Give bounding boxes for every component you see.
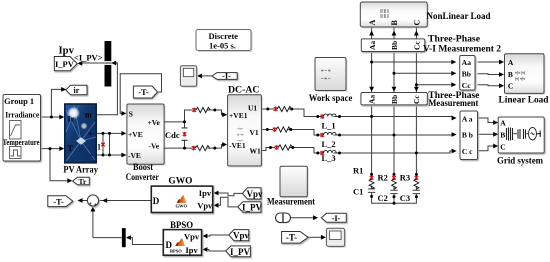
svg-text:ir: ir — [74, 86, 80, 95]
svg-text:Ipv: Ipv — [199, 188, 212, 198]
svg-text:Vpv: Vpv — [197, 201, 213, 211]
svg-text:Work space: Work space — [309, 94, 353, 104]
svg-text:Linear Load: Linear Load — [499, 96, 550, 106]
svg-text:L_1: L_1 — [322, 121, 336, 131]
svg-text:W1: W1 — [250, 147, 262, 156]
svg-text:+VE1: +VE1 — [229, 111, 248, 120]
svg-text:B: B — [390, 20, 399, 26]
svg-text:||| ||| ||: ||| ||| || — [380, 13, 389, 18]
svg-text:Converter: Converter — [126, 173, 160, 183]
svg-text:C2: C2 — [378, 193, 388, 203]
svg-text:A: A — [500, 119, 506, 128]
svg-text:A: A — [508, 58, 514, 67]
svg-text:-VE: -VE — [128, 151, 141, 160]
svg-text:B: B — [508, 70, 513, 79]
svg-text:Cc: Cc — [462, 81, 471, 90]
svg-text:C: C — [500, 143, 505, 152]
svg-text:m: m — [85, 111, 92, 120]
svg-text:+: + — [88, 130, 93, 139]
svg-text:Tr: Tr — [79, 177, 87, 186]
svg-text:<I_PV>: <I_PV> — [74, 53, 103, 63]
svg-text:Ir: Ir — [68, 115, 75, 124]
svg-text:GWO: GWO — [168, 177, 192, 187]
svg-text:B b: B b — [462, 131, 473, 140]
svg-text:-T-: -T- — [138, 87, 149, 97]
svg-text:GWO: GWO — [176, 204, 188, 209]
svg-text:Cc: Cc — [413, 41, 422, 50]
svg-text:PV Array: PV Array — [63, 166, 98, 176]
svg-text:-T-: -T- — [53, 196, 64, 206]
svg-text:C c: C c — [462, 147, 473, 156]
svg-text:1e-05 s.: 1e-05 s. — [209, 41, 236, 51]
svg-text:~≈~: ~≈~ — [237, 126, 244, 131]
svg-text:Ipv: Ipv — [186, 245, 199, 255]
svg-text:I_PV: I_PV — [230, 247, 251, 257]
svg-text:Discrete: Discrete — [209, 31, 239, 41]
svg-text:Measurement: Measurement — [267, 198, 316, 208]
svg-text:V-I Measurement 2: V-I Measurement 2 — [423, 45, 501, 55]
svg-text:I_PV: I_PV — [55, 59, 75, 69]
svg-text:U1: U1 — [248, 104, 257, 113]
svg-text:NonLinear Load: NonLinear Load — [427, 12, 492, 22]
svg-text:C: C — [413, 20, 422, 26]
svg-text:Three-Phase: Three-Phase — [428, 35, 480, 45]
svg-text:I_PV: I_PV — [242, 202, 263, 212]
svg-text:-I-: -I- — [332, 213, 341, 223]
svg-text:Bb: Bb — [390, 41, 399, 50]
svg-text:+: + — [89, 202, 93, 208]
svg-text:R1: R1 — [353, 166, 363, 176]
svg-text:1: 1 — [97, 143, 101, 152]
svg-text:Grid system: Grid system — [497, 157, 543, 167]
svg-text:Temperature: Temperature — [3, 138, 40, 147]
svg-text:T: T — [68, 144, 74, 153]
svg-text:~≈~: ~≈~ — [237, 138, 244, 143]
svg-text:Aa: Aa — [462, 58, 471, 67]
svg-text:A: A — [368, 20, 377, 26]
svg-text:R2: R2 — [378, 172, 388, 182]
svg-text:D: D — [153, 196, 160, 206]
svg-text:A a: A a — [462, 114, 473, 123]
svg-text:+VE: +VE — [128, 130, 143, 139]
svg-text:Ipv: Ipv — [59, 46, 75, 57]
svg-text:Cc: Cc — [412, 95, 421, 104]
svg-text:L_2: L_2 — [322, 139, 336, 149]
svg-text:|≈| ≈|≈: |≈| ≈|≈ — [515, 76, 526, 81]
svg-text:≈~≈: ≈~≈ — [237, 132, 244, 137]
svg-text:+: + — [94, 203, 98, 209]
svg-text:≈|≈ |≈|: ≈|≈ |≈| — [515, 70, 525, 75]
svg-text:Irradiance: Irradiance — [5, 110, 39, 119]
svg-text:BPSO: BPSO — [170, 249, 182, 254]
svg-text:~ ≈ ~: ~ ≈ ~ — [321, 76, 331, 81]
svg-text:R3: R3 — [400, 172, 410, 182]
svg-text:L_3: L_3 — [322, 153, 336, 163]
svg-text:B: B — [500, 131, 505, 140]
svg-text:C3: C3 — [400, 193, 410, 203]
svg-text:Vpv: Vpv — [184, 232, 200, 242]
svg-text:Boost: Boost — [133, 163, 154, 173]
svg-text:Vpv: Vpv — [247, 189, 264, 199]
svg-text:V1: V1 — [250, 128, 259, 137]
svg-text:Bb: Bb — [390, 95, 399, 104]
svg-text:Aa: Aa — [367, 95, 376, 104]
svg-text:-Ve: -Ve — [149, 142, 160, 151]
svg-text:Cdc: Cdc — [165, 130, 180, 140]
svg-text:Aa: Aa — [368, 41, 377, 50]
svg-text:C: C — [508, 82, 513, 91]
svg-text:-T-: -T- — [286, 233, 297, 243]
svg-text:+Ve: +Ve — [148, 118, 161, 127]
svg-text:-: - — [90, 150, 93, 160]
svg-text:Group 1: Group 1 — [4, 96, 34, 106]
svg-text:DC-AC: DC-AC — [228, 86, 260, 96]
svg-text:Measurement: Measurement — [428, 99, 479, 109]
svg-text:-I-: -I- — [222, 71, 231, 81]
svg-text:C1: C1 — [353, 186, 363, 196]
svg-text:≈ ~ ≈: ≈ ~ ≈ — [321, 68, 331, 73]
svg-text:S: S — [129, 110, 133, 119]
svg-text:Bb: Bb — [462, 70, 471, 79]
svg-text:Vpv: Vpv — [233, 231, 250, 241]
